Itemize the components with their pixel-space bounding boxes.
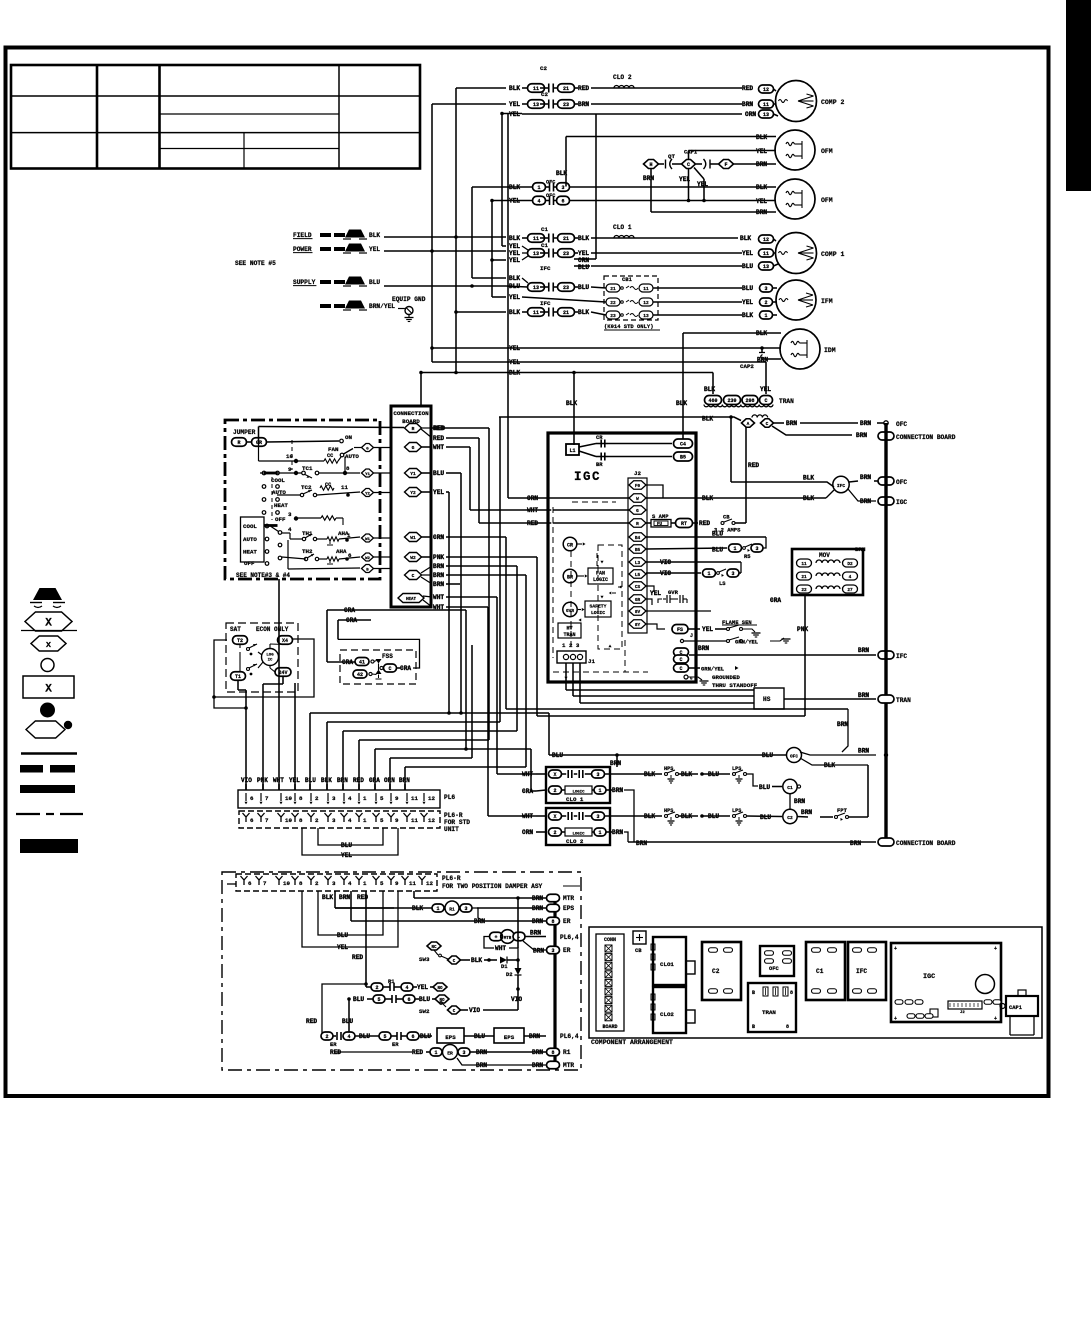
svg-text:11: 11 (763, 251, 769, 257)
svg-text:BLK: BLK (412, 905, 423, 912)
svg-text:YEL: YEL (509, 257, 520, 264)
svg-text:THRU STANDOFF: THRU STANDOFF (712, 682, 758, 689)
svg-text:OFC: OFC (546, 193, 555, 199)
svg-text:SAT: SAT (230, 626, 241, 633)
svg-text:6: 6 (250, 795, 254, 802)
svg-text:2: 2 (553, 830, 556, 836)
svg-text:OFM: OFM (821, 148, 833, 155)
svg-text:4: 4 (405, 985, 408, 991)
svg-text:RED: RED (412, 1049, 423, 1056)
svg-text:OFC: OFC (546, 180, 555, 186)
svg-text:BLK: BLK (742, 312, 753, 319)
svg-text:BLK: BLK (756, 134, 767, 141)
svg-text:9: 9 (395, 795, 399, 802)
svg-text:BRN: BRN (801, 809, 812, 816)
svg-text:AHA: AHA (336, 548, 347, 555)
svg-text:BLK: BLK (471, 957, 482, 964)
svg-text:8: 8 (299, 880, 303, 887)
svg-text:G: G (636, 509, 639, 514)
svg-text:24V: 24V (278, 670, 287, 676)
svg-text:BLK: BLK (803, 475, 814, 482)
svg-text:GRA: GRA (770, 597, 781, 604)
svg-text:X: X (553, 772, 556, 778)
svg-text:C2: C2 (541, 91, 548, 98)
svg-text:BLU: BLU (762, 752, 773, 759)
svg-text:BR: BR (596, 461, 603, 468)
svg-text:WHT: WHT (527, 507, 538, 514)
svg-text:BLK: BLK (740, 235, 751, 242)
svg-text:C2: C2 (540, 65, 547, 72)
svg-text:YEL: YEL (509, 359, 520, 366)
svg-text:23: 23 (563, 285, 569, 291)
svg-text:PNK: PNK (257, 777, 268, 784)
svg-text:BRN: BRN (433, 563, 444, 570)
svg-text:x: x (46, 640, 52, 650)
svg-text:4: 4 (347, 1034, 350, 1040)
svg-text:OFF: OFF (275, 516, 286, 523)
svg-text:WHT: WHT (273, 777, 284, 784)
svg-text:WHT: WHT (495, 945, 506, 952)
svg-text:2: 2 (315, 795, 319, 802)
svg-text:CONNECTION BOARD: CONNECTION BOARD (896, 840, 956, 847)
svg-text:RED: RED (578, 85, 589, 92)
svg-text:RED: RED (527, 520, 538, 527)
svg-text:YEL: YEL (702, 626, 713, 633)
svg-text:L3: L3 (635, 561, 641, 566)
svg-text:2: 2 (315, 880, 319, 887)
svg-text:BLK: BLK (321, 777, 332, 784)
svg-text:BLU: BLU (474, 1033, 485, 1040)
svg-text:CLO2: CLO2 (660, 1011, 674, 1018)
svg-text:ORN: ORN (522, 829, 533, 836)
svg-text:COMP 2: COMP 2 (821, 99, 845, 106)
svg-text:BLK: BLK (578, 235, 589, 242)
svg-text:21: 21 (563, 86, 569, 92)
svg-text:BLK: BLK (756, 330, 767, 337)
svg-text:BRN: BRN (756, 209, 767, 216)
svg-text:4: 4 (288, 526, 292, 533)
svg-text:BLK: BLK (509, 235, 520, 242)
svg-text:W2: W2 (365, 557, 370, 561)
svg-text:ER: ER (563, 947, 571, 954)
svg-text:OFC: OFC (896, 421, 907, 428)
svg-text:8: 8 (299, 795, 303, 802)
svg-text:C: C (764, 398, 767, 404)
svg-text:12: 12 (428, 817, 435, 824)
svg-text:J2: J2 (634, 470, 641, 477)
svg-text:1: 1 (363, 795, 367, 802)
svg-text:Y2: Y2 (365, 492, 370, 496)
svg-text:5: 5 (380, 795, 384, 802)
svg-text:YEL: YEL (433, 489, 444, 496)
svg-text:RED: RED (748, 462, 759, 469)
svg-text:MTR: MTR (563, 895, 574, 902)
svg-text:NC: NC (431, 946, 437, 950)
svg-text:IGC: IGC (923, 973, 935, 981)
svg-text:3: 3 (332, 817, 336, 824)
svg-text:BLU: BLU (742, 285, 753, 292)
svg-text:ECON ONLY: ECON ONLY (256, 626, 289, 633)
svg-text:(K014 STD ONLY): (K014 STD ONLY) (604, 323, 654, 330)
svg-text:HEAT: HEAT (274, 502, 288, 509)
svg-text:GRN/YEL: GRN/YEL (735, 639, 759, 646)
svg-text:YEL: YEL (756, 148, 767, 155)
svg-text:3: 3 (332, 880, 336, 887)
svg-text:IFM: IFM (821, 298, 833, 305)
svg-text:POWER: POWER (293, 246, 312, 253)
svg-text:MTR: MTR (504, 937, 512, 941)
svg-text:BLU: BLU (742, 263, 753, 270)
svg-text:BLU: BLU (708, 813, 719, 820)
svg-text:GR: GR (635, 598, 641, 603)
svg-text:BRN: BRN (756, 161, 767, 168)
svg-text:8: 8 (551, 1050, 554, 1056)
svg-text:YEL: YEL (742, 250, 753, 257)
svg-text:BLK: BLK (556, 170, 567, 177)
svg-text:BLU: BLU (337, 932, 348, 939)
svg-text:23: 23 (610, 313, 616, 319)
svg-text:TRAN: TRAN (563, 632, 575, 638)
svg-text:IGC: IGC (574, 470, 601, 484)
svg-text:CR: CR (567, 543, 573, 549)
svg-text:11: 11 (409, 880, 416, 887)
svg-text:CS: CS (635, 585, 641, 590)
svg-text:3: 3 (464, 906, 467, 912)
svg-text:42: 42 (357, 672, 363, 678)
svg-text:T2: T2 (237, 638, 243, 644)
svg-text:23: 23 (563, 251, 569, 257)
svg-text:UNIT: UNIT (444, 826, 459, 833)
svg-text:8: 8 (346, 465, 350, 472)
svg-text:VIO: VIO (511, 996, 522, 1003)
svg-text:2: 2 (325, 1034, 328, 1040)
svg-text:YEL: YEL (650, 590, 661, 597)
svg-text:21: 21 (801, 575, 807, 580)
svg-text:BLK: BLK (824, 762, 835, 769)
svg-text:L1: L1 (569, 448, 575, 454)
svg-text:11: 11 (411, 817, 418, 824)
svg-text:8: 8 (299, 817, 303, 824)
svg-text:COMP 1: COMP 1 (821, 251, 845, 258)
svg-text:12: 12 (643, 300, 649, 306)
svg-text:CAP1: CAP1 (684, 149, 698, 156)
svg-text:C1: C1 (541, 242, 548, 249)
svg-text:YEL: YEL (417, 984, 428, 991)
svg-text:FAN: FAN (596, 571, 605, 577)
svg-text:13: 13 (533, 251, 539, 257)
svg-text:3: 3 (551, 948, 554, 954)
svg-text:C: C (679, 666, 682, 672)
svg-text:IFC: IFC (856, 968, 867, 975)
svg-text:BRN: BRN (399, 777, 410, 784)
svg-text:B: B (752, 1024, 755, 1030)
svg-text:BRN: BRN (476, 1062, 487, 1069)
svg-text:YEL: YEL (509, 198, 520, 205)
svg-text:13: 13 (763, 264, 769, 270)
svg-text:Y2: Y2 (410, 490, 416, 496)
svg-text:B: B (752, 990, 755, 996)
svg-text:11: 11 (533, 310, 539, 316)
svg-text:ORN: ORN (578, 257, 589, 264)
svg-text:YEL: YEL (742, 299, 753, 306)
svg-text:BRN: BRN (858, 647, 869, 654)
svg-text:12: 12 (763, 87, 769, 93)
svg-text:LOG: LOG (266, 654, 274, 658)
svg-text:1: 1 (537, 185, 540, 191)
svg-text:BRN: BRN (532, 1062, 543, 1069)
svg-text:BRN: BRN (612, 829, 623, 836)
svg-text:BLK: BLK (322, 894, 333, 901)
svg-text:CLO 2: CLO 2 (566, 838, 584, 845)
svg-text:10: 10 (285, 817, 292, 824)
svg-text:CLO 1: CLO 1 (566, 796, 584, 803)
svg-text:13: 13 (763, 112, 769, 118)
svg-text:A: A (747, 421, 750, 427)
svg-text:JUMPER: JUMPER (233, 429, 256, 436)
svg-text:BLK: BLK (369, 232, 380, 239)
svg-text:11: 11 (763, 102, 769, 108)
svg-text:WHT: WHT (433, 444, 444, 451)
svg-text:5: 5 (380, 817, 384, 824)
svg-text:1: 1 (733, 546, 736, 552)
svg-text:BRN: BRN (837, 721, 848, 728)
svg-text:PL6,4: PL6,4 (560, 1033, 579, 1040)
svg-text:RED: RED (433, 425, 444, 432)
svg-text:CONNECTION: CONNECTION (393, 410, 429, 417)
svg-text:208: 208 (745, 398, 754, 404)
svg-text:SEE NOTE #5: SEE NOTE #5 (235, 260, 276, 267)
svg-text:1: 1 (436, 906, 439, 912)
svg-text:FOR STD: FOR STD (444, 819, 470, 826)
svg-text:TC2: TC2 (301, 484, 312, 491)
svg-text:LPS: LPS (732, 808, 741, 814)
svg-text:BLU: BLU (305, 777, 316, 784)
svg-text:11: 11 (341, 484, 348, 491)
svg-text:12: 12 (426, 880, 433, 887)
svg-text:3: 3 (731, 571, 734, 577)
svg-text:L5: L5 (635, 573, 641, 578)
svg-text:BLK: BLK (509, 309, 520, 316)
svg-text:IFC: IFC (896, 653, 907, 660)
svg-text:BRN: BRN (529, 1033, 540, 1040)
svg-text:OFF: OFF (244, 560, 255, 567)
svg-text:BLK: BLK (681, 813, 692, 820)
svg-text:BRN: BRN (533, 948, 544, 955)
svg-text:RED: RED (433, 435, 444, 442)
svg-text:BLK: BLK (702, 495, 713, 502)
svg-text:3: 3 (764, 286, 767, 292)
svg-text:LOGIC: LOGIC (593, 577, 608, 583)
svg-text:BLK: BLK (578, 309, 589, 316)
svg-text:BLK: BLK (704, 386, 715, 393)
svg-text:F: F (724, 162, 727, 168)
svg-text:YEL: YEL (509, 243, 520, 250)
svg-text:BRN: BRN (532, 905, 543, 912)
svg-text:LOGIC: LOGIC (572, 832, 585, 836)
svg-text:YEL: YEL (369, 246, 380, 253)
svg-text:IFC: IFC (540, 300, 551, 307)
svg-text:BRN: BRN (532, 918, 543, 925)
svg-text:Y1: Y1 (410, 471, 416, 477)
svg-text:VIO: VIO (660, 570, 671, 577)
svg-text:BLU: BLU (578, 264, 589, 271)
svg-text:FAN: FAN (328, 446, 339, 453)
svg-text:BRN: BRN (860, 474, 871, 481)
svg-text:23: 23 (563, 102, 569, 108)
svg-text:PL6-R: PL6-R (444, 812, 463, 819)
svg-text:SUPPLY: SUPPLY (293, 279, 316, 286)
svg-text:9: 9 (395, 817, 399, 824)
svg-text:13: 13 (643, 313, 649, 319)
svg-text:BRN: BRN (860, 420, 871, 427)
svg-text:W: W (636, 497, 639, 502)
svg-text:4: 4 (849, 575, 852, 580)
svg-text:5: 5 (383, 1034, 386, 1040)
svg-text:HPS: HPS (664, 808, 673, 814)
svg-text:X4: X4 (282, 638, 288, 644)
svg-text:GVR: GVR (668, 589, 679, 596)
svg-text:H: H (649, 162, 652, 168)
svg-text:21: 21 (563, 310, 569, 316)
svg-text:GRA: GRA (369, 777, 380, 784)
svg-text:11: 11 (801, 562, 807, 567)
svg-text:IFC: IFC (837, 483, 846, 489)
svg-text:BRN: BRN (476, 1049, 487, 1056)
svg-text:D2: D2 (506, 971, 513, 978)
svg-text:460: 460 (708, 398, 717, 404)
svg-text:GRN/YEL: GRN/YEL (701, 666, 725, 673)
svg-text:C: C (766, 421, 769, 427)
svg-text:C: C (687, 162, 690, 168)
svg-text:X: X (45, 618, 52, 630)
svg-text:OFC: OFC (769, 966, 779, 972)
svg-text:VIO: VIO (241, 777, 252, 784)
svg-text:13: 13 (533, 285, 539, 291)
svg-text:COOL: COOL (271, 477, 285, 484)
svg-text:LPS: LPS (732, 766, 741, 772)
svg-text:PNK: PNK (797, 626, 808, 633)
svg-text:G: G (412, 445, 415, 451)
svg-text:VIO: VIO (660, 559, 671, 566)
svg-text:BLK: BLK (509, 275, 520, 282)
svg-text:C: C (388, 666, 391, 672)
svg-text:+: + (494, 934, 497, 940)
svg-text:YEL: YEL (756, 198, 767, 205)
svg-text:RED: RED (699, 520, 710, 527)
svg-text:5: 5 (380, 880, 384, 887)
svg-text:X: X (553, 814, 556, 820)
svg-text:ORN: ORN (384, 777, 395, 784)
svg-text:OFM: OFM (821, 197, 833, 204)
svg-text:BLK: BLK (803, 495, 814, 502)
svg-text:BLU: BLU (369, 279, 380, 286)
svg-text:21: 21 (563, 236, 569, 242)
svg-text:HEAT: HEAT (406, 598, 417, 602)
svg-text:1: 1 (434, 1050, 437, 1056)
svg-text:BRN: BRN (850, 840, 861, 847)
svg-text:BRN/YEL: BRN/YEL (369, 303, 395, 310)
svg-text:CB1: CB1 (622, 276, 633, 283)
svg-text:11: 11 (533, 236, 539, 242)
svg-text:CLO1: CLO1 (660, 961, 674, 968)
svg-text:1: 1 (598, 788, 601, 794)
svg-text:BRN: BRN (858, 692, 869, 699)
svg-text:MOV: MOV (819, 552, 830, 559)
svg-text:BRN: BRN (433, 581, 444, 588)
svg-text:7: 7 (263, 880, 267, 887)
svg-text:21: 21 (610, 286, 616, 292)
svg-text:PNK: PNK (433, 554, 444, 561)
svg-text:BRN: BRN (474, 918, 485, 925)
svg-text:41: 41 (359, 659, 365, 665)
svg-text:7: 7 (265, 795, 269, 802)
svg-text:4: 4 (348, 817, 352, 824)
svg-text:1: 1 (707, 571, 710, 577)
svg-text:6: 6 (407, 997, 410, 1003)
svg-text:BLU: BLU (552, 752, 563, 759)
svg-text:BRN: BRN (786, 420, 797, 427)
svg-text:ORN: ORN (527, 495, 538, 502)
svg-text:ER: ER (330, 1041, 337, 1048)
svg-text:8: 8 (786, 1024, 789, 1030)
svg-text:R: R (237, 440, 240, 446)
svg-text:BLU: BLU (342, 1018, 353, 1025)
svg-text:BLK: BLK (644, 813, 655, 820)
svg-text:FOR TWO POSITION DAMPER ASY: FOR TWO POSITION DAMPER ASY (442, 883, 543, 890)
svg-text:BLK: BLK (676, 400, 687, 407)
svg-text:PL6,4: PL6,4 (560, 934, 579, 941)
svg-text:WHT: WHT (433, 594, 444, 601)
svg-text:BLK: BLK (509, 370, 520, 377)
svg-text:5: 5 (377, 997, 380, 1003)
svg-text:CR: CR (596, 434, 603, 441)
svg-text:GRA: GRA (342, 659, 353, 666)
svg-text:YEL: YEL (509, 345, 520, 352)
svg-text:CLO 2: CLO 2 (613, 74, 632, 81)
svg-text:MTR: MTR (563, 1062, 574, 1069)
svg-text:3: 3 (755, 546, 758, 552)
svg-text:C1: C1 (541, 226, 548, 233)
svg-text:X: X (45, 684, 52, 696)
svg-text:10: 10 (285, 795, 292, 802)
svg-text:SEE NOTE#3 & #4: SEE NOTE#3 & #4 (236, 572, 290, 579)
svg-text:BLU: BLU (712, 547, 723, 554)
svg-text:COMPONENT ARRANGEMENT: COMPONENT ARRANGEMENT (591, 1039, 673, 1046)
svg-text:ER: ER (392, 1041, 399, 1048)
svg-text:FIELD: FIELD (293, 232, 312, 239)
svg-text:Y1: Y1 (365, 473, 370, 477)
svg-text:12: 12 (428, 795, 435, 802)
svg-text:BLK: BLK (756, 184, 767, 191)
svg-text:BRN: BRN (610, 760, 621, 767)
svg-text:BOARD: BOARD (602, 1024, 617, 1030)
svg-text:C1: C1 (787, 785, 793, 791)
svg-text:BLU: BLU (419, 996, 430, 1003)
svg-text:ER: ER (563, 918, 571, 925)
svg-text:YEL: YEL (289, 777, 300, 784)
svg-text:GVR: GVR (566, 609, 574, 614)
svg-text:W2: W2 (410, 555, 416, 561)
svg-text:YEL: YEL (509, 294, 520, 301)
svg-text:B5: B5 (680, 454, 686, 460)
svg-text:C: C (679, 657, 682, 663)
svg-text:BRN: BRN (636, 840, 647, 847)
svg-text:BR: BR (567, 575, 573, 581)
svg-text:LS: LS (719, 580, 726, 587)
svg-text:EQUIP GND: EQUIP GND (392, 296, 426, 303)
svg-text:CAP2: CAP2 (740, 363, 754, 370)
svg-text:11: 11 (411, 795, 418, 802)
